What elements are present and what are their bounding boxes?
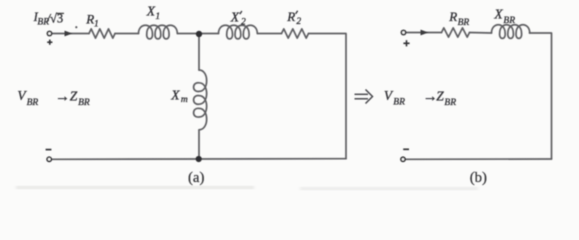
svg-text:→: → bbox=[55, 89, 70, 105]
svg-text:Z: Z bbox=[436, 89, 444, 104]
wire: bottom of (b) bbox=[406, 158, 552, 160]
label arrow Z_BR (a) bbox=[55, 89, 90, 108]
label X1 bbox=[146, 4, 160, 22]
label R'2 bbox=[286, 9, 301, 27]
label I_BR/sqrt3 bbox=[33, 10, 64, 27]
minus sign (b) bbox=[403, 148, 409, 150]
arrow on wire of (b) bbox=[421, 30, 429, 36]
node: bottom junction of Xm branch bbox=[196, 156, 202, 162]
terminal: (a) top-left bbox=[47, 31, 51, 35]
inductor XBR bbox=[492, 25, 530, 39]
svg-text:1: 1 bbox=[155, 12, 160, 22]
svg-text:(a): (a) bbox=[188, 170, 204, 186]
minus sign (a) bbox=[46, 149, 52, 151]
wire: (a) top-left terminal to R1 bbox=[52, 33, 89, 35]
label Xm bbox=[170, 88, 188, 105]
svg-text:BR: BR bbox=[458, 18, 470, 28]
label arrow Z_BR (b) bbox=[423, 89, 456, 108]
svg-text:BR: BR bbox=[444, 98, 456, 108]
svg-text:X: X bbox=[146, 4, 156, 19]
svg-text:m: m bbox=[181, 95, 188, 105]
wire: RBR to XBR bbox=[470, 32, 492, 35]
label X'2 bbox=[230, 9, 246, 27]
svg-text:Z: Z bbox=[70, 89, 78, 104]
svg-text:2: 2 bbox=[241, 18, 246, 28]
faint page streak bottom right bbox=[300, 187, 478, 189]
wire: bottom of (a) bbox=[52, 158, 346, 161]
inductor X1 bbox=[139, 25, 178, 39]
wire: X2 to R'2 bbox=[258, 33, 282, 35]
svg-text:BR: BR bbox=[78, 98, 90, 108]
arrow on wire of (a) bbox=[65, 31, 73, 37]
inductor Xm bbox=[194, 70, 207, 130]
svg-text:R: R bbox=[286, 9, 295, 24]
resistor R'2 bbox=[282, 29, 309, 38]
svg-text:2: 2 bbox=[296, 17, 301, 27]
resistor R1 bbox=[89, 29, 115, 38]
implies double arrow bbox=[355, 90, 373, 104]
svg-text:BR: BR bbox=[27, 98, 39, 108]
svg-text:BR: BR bbox=[393, 98, 405, 108]
stray prime mark bbox=[75, 26, 77, 28]
svg-text:BR: BR bbox=[503, 16, 515, 26]
wire: R'2 to top-right corner, down right side of (a) bbox=[309, 34, 347, 159]
wire: R1 to X1 bbox=[115, 33, 139, 35]
svg-text:X: X bbox=[493, 7, 503, 22]
label R_BR bbox=[448, 9, 469, 28]
label V_BR (a) bbox=[17, 88, 38, 108]
node: top junction of Xm branch bbox=[196, 31, 202, 37]
terminal: (a) bottom-left bbox=[47, 157, 51, 161]
faint page streak bottom left bbox=[16, 186, 254, 189]
svg-text:X: X bbox=[170, 88, 180, 103]
plus sign (b) bbox=[403, 40, 409, 46]
resistor RBR bbox=[442, 28, 470, 37]
terminal: (b) bottom-left bbox=[401, 157, 405, 161]
inductor X'2 bbox=[219, 25, 258, 39]
wire: X1 to node and to X2 bbox=[178, 33, 219, 35]
plus sign (a) bbox=[47, 40, 52, 45]
svg-text:R: R bbox=[85, 12, 94, 27]
label X_BR bbox=[493, 7, 515, 26]
wire: middle vertical branch upper bbox=[198, 34, 200, 70]
svg-text:(b): (b) bbox=[470, 170, 487, 186]
label R1 bbox=[85, 12, 99, 30]
wire: XBR to corner, down right side of (b) bbox=[530, 33, 552, 159]
label V_BR (b) bbox=[384, 88, 405, 107]
svg-text:R: R bbox=[448, 9, 457, 24]
svg-text:1: 1 bbox=[94, 20, 99, 30]
terminal: (b) top-left bbox=[401, 30, 405, 34]
wire: (b) terminal to RBR bbox=[406, 32, 441, 34]
svg-text:X: X bbox=[230, 9, 240, 24]
wire: middle vertical branch lower bbox=[198, 130, 200, 159]
